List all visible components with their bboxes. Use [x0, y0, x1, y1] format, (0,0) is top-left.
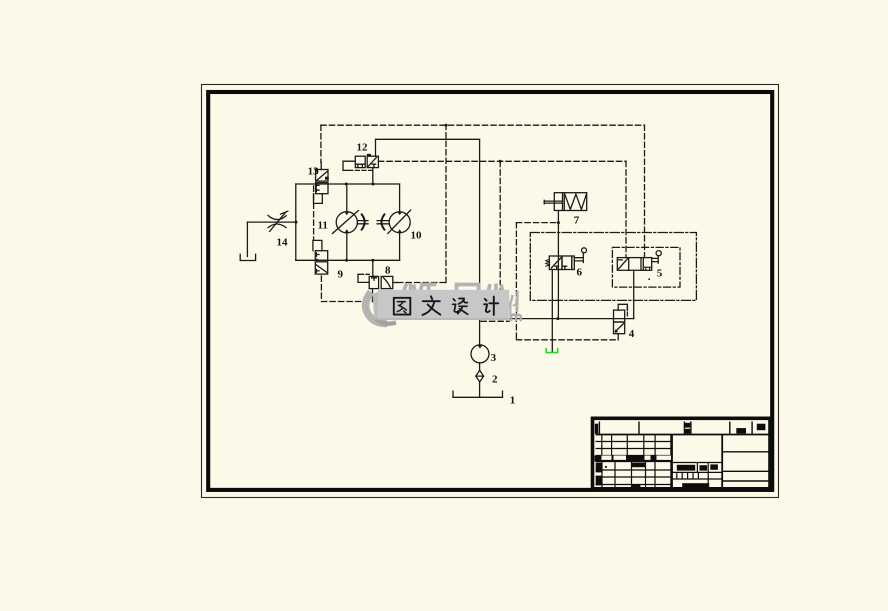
- tank 1: [453, 391, 503, 397]
- motor 11: [333, 211, 369, 234]
- wire valve8 right stub: [393, 282, 398, 284]
- wire check2 to tank1: [479, 382, 481, 397]
- wire valve4 bottom stub: [617, 334, 619, 340]
- tank symbol left drain: [240, 254, 255, 260]
- pump 3: [471, 345, 489, 363]
- pilot dashed valve12 pilot bottom: [349, 169, 373, 171]
- dash-dot enclosure rect: [530, 233, 696, 301]
- pilot dashed short horiz under box: [481, 320, 509, 322]
- valve 13 (2/2 pilot valve): [314, 168, 329, 204]
- wire valve13 top stub: [320, 162, 322, 170]
- wire left drain drop: [246, 222, 248, 256]
- component number labels: [277, 142, 663, 407]
- wire motor-box left edge: [295, 184, 297, 260]
- svg-text:2: 2: [492, 373, 498, 385]
- wire motor11 bottom: [346, 233, 348, 260]
- border inner thick frame: [208, 92, 772, 490]
- dashed sub-enclosure around valve5: [612, 247, 680, 287]
- wire motor-box right edge lower: [399, 233, 401, 261]
- wire cylinder7 to valve6 through-line: [557, 211, 559, 319]
- pilot dashed valve12 out line: [378, 160, 626, 162]
- svg-text:14: 14: [277, 237, 289, 249]
- wire pump3 to check2: [479, 363, 481, 371]
- pilot dashed valve13-valve9 left line: [313, 186, 315, 240]
- watermark text 图 文 设 计: [394, 296, 499, 315]
- svg-text:13: 13: [308, 165, 320, 177]
- pilot dashed vertical 516: [515, 223, 517, 340]
- motor 10: [377, 210, 411, 233]
- valve 8 (2/2 valve): [358, 274, 393, 288]
- wire valve5 bottom port: [633, 270, 635, 318]
- wire valve12 bottom port: [372, 168, 374, 184]
- wire valve8 bottom stub: [372, 289, 374, 302]
- svg-text:10: 10: [411, 230, 423, 242]
- wire motor-box top edge: [296, 183, 400, 185]
- watermark ghost glyph tops: [404, 284, 503, 291]
- pilot dashed valve9 bottom route: [321, 276, 372, 302]
- svg-text:9: 9: [338, 269, 344, 281]
- svg-text:12: 12: [357, 142, 369, 154]
- svg-text:5: 5: [657, 268, 663, 280]
- title block text blobs: [595, 423, 766, 489]
- svg-text:1: 1: [510, 395, 516, 407]
- wire motor-box right edge upper: [399, 184, 401, 212]
- border outer thin frame: [202, 85, 779, 498]
- wire valve8 top port: [372, 260, 374, 276]
- svg-text:4: 4: [629, 328, 635, 340]
- pilot dashed right drop to valve5 right: [644, 125, 646, 257]
- watermark ghost logo swirl: [366, 292, 396, 324]
- wire horizontal to valve4: [510, 318, 634, 320]
- wire motor-box bottom edge: [296, 259, 400, 261]
- wire valve6 left port to tank: [551, 270, 553, 353]
- svg-text:8: 8: [385, 264, 391, 276]
- svg-text:3: 3: [491, 352, 497, 364]
- junction dots: [295, 124, 560, 320]
- watermark ghost glyph right: [507, 291, 518, 317]
- pilot dashed drop to valve13: [320, 125, 322, 162]
- pilot dashed drop to valve5 left: [625, 161, 627, 257]
- wire motor11 top: [346, 184, 348, 212]
- svg-text:11: 11: [318, 220, 328, 232]
- svg-text:7: 7: [574, 215, 580, 227]
- valve 12 (3/2 solenoid valve): [343, 154, 378, 171]
- cylinder 7 with spring return: [544, 193, 587, 211]
- pilot dashed drop from dot 500: [499, 161, 501, 321]
- stray mark near valve 5: [648, 278, 650, 280]
- watermark gray box: [378, 290, 509, 320]
- wire throttle line: [247, 221, 295, 223]
- throttle valve 14: [268, 211, 288, 231]
- check valve 2: [476, 370, 484, 382]
- valve 5 (3/2 roller valve): [617, 251, 661, 271]
- title block: [593, 418, 771, 489]
- pilot dashed valve8 to riser: [398, 282, 447, 284]
- green tank symbol: [546, 348, 558, 353]
- pilot dashed valve4 side: [626, 307, 628, 317]
- wire pump riser P-line: [376, 139, 480, 345]
- watermark ghost m: [511, 315, 520, 322]
- valve 6 (3/2 roller valve): [546, 248, 587, 270]
- valve 9 (2/2 pilot valve): [313, 240, 328, 274]
- pilot dashed tap on cyl7 line: [516, 222, 558, 224]
- pilot dashed top line: [321, 124, 645, 126]
- svg-text:6: 6: [577, 266, 583, 278]
- pilot dashed to valve4 bottom: [516, 339, 618, 341]
- valve 4 (pressure valve): [614, 304, 628, 333]
